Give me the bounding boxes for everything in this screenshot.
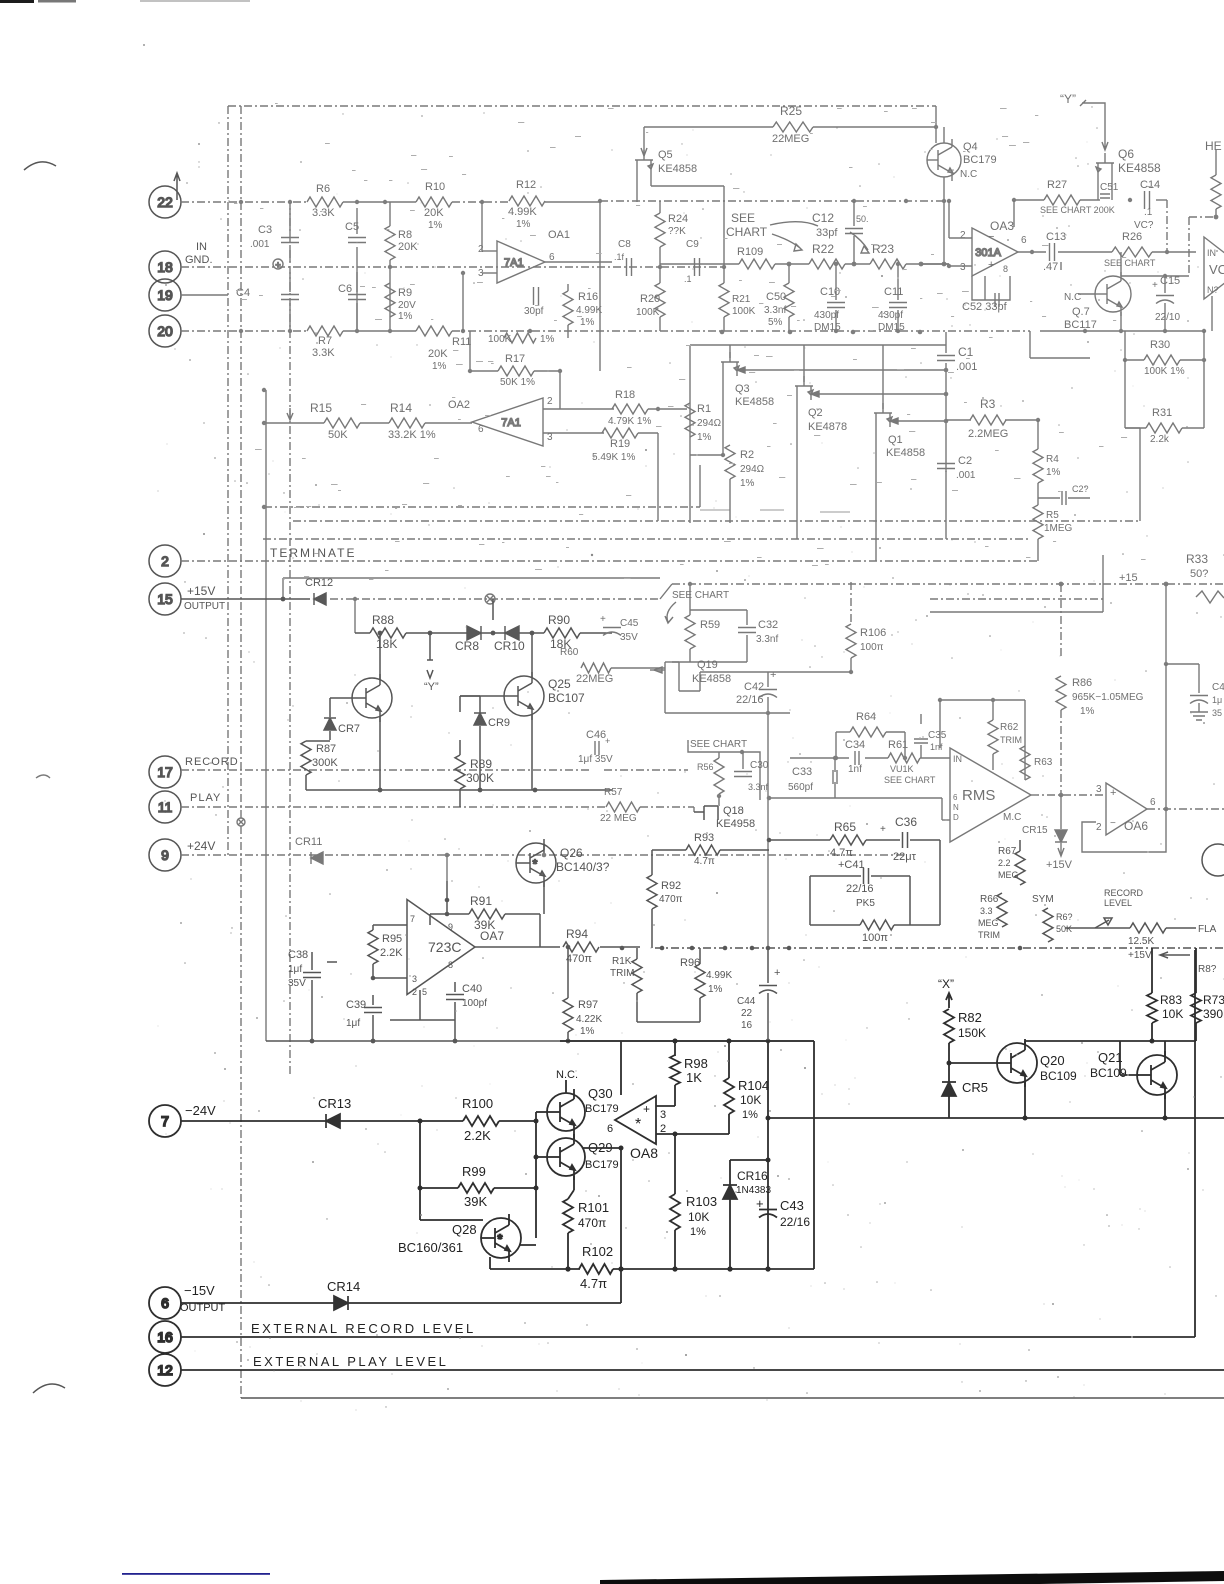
svg-text:BC179: BC179 [963, 154, 997, 166]
capacitor C35 [914, 739, 928, 743]
resistor R17 [498, 366, 534, 376]
svg-text:20K: 20K [428, 348, 448, 360]
wire q29 to oa8 bus [583, 1147, 621, 1149]
wire [329, 698, 331, 717]
connector pin 16 [149, 1321, 181, 1353]
junction y948 [1018, 946, 1023, 951]
svg-text:LEVEL: LEVEL [1104, 898, 1132, 908]
wire [700, 671, 851, 673]
wire record row [181, 769, 590, 771]
svg-text:RMS: RMS [962, 787, 995, 804]
wire rms out [1031, 794, 1106, 796]
svg-text:39K: 39K [474, 918, 495, 932]
transistor Q24 [352, 674, 392, 722]
wire [1121, 275, 1165, 277]
wire q7 emitter row [1040, 330, 1204, 332]
capacitor C40 [446, 995, 464, 1000]
wire [452, 201, 509, 203]
svg-text:2: 2 [412, 987, 417, 997]
junction [944, 392, 949, 397]
wire inner box bottom y539 [263, 538, 1030, 540]
wire [897, 310, 899, 331]
svg-text:1%: 1% [540, 334, 555, 345]
svg-text:N?: N? [1207, 285, 1219, 295]
wire [690, 454, 723, 456]
svg-text:CR9: CR9 [488, 717, 510, 729]
svg-text:4.7π: 4.7π [830, 847, 853, 859]
wire jog [660, 584, 672, 599]
svg-text:GND.: GND. [185, 254, 213, 266]
scan noise speckle [836, 127, 837, 128]
svg-text:1%: 1% [697, 432, 712, 443]
capacitor C51 [1100, 194, 1110, 198]
svg-text:1nf: 1nf [848, 764, 862, 775]
junction on row y331 [288, 329, 292, 333]
wire +15 rail right [672, 583, 1103, 585]
svg-text:SEE CHART: SEE CHART [672, 590, 729, 601]
wire [699, 672, 701, 691]
junction [834, 756, 838, 760]
svg-text:C32: C32 [758, 619, 778, 631]
svg-text:“Y”: “Y” [1060, 92, 1076, 106]
junction [1164, 582, 1169, 587]
junction y332 [918, 330, 923, 335]
diode CR15 [1055, 830, 1067, 842]
svg-text:1N4383: 1N4383 [736, 1185, 771, 1196]
svg-text:C52 33pf: C52 33pf [962, 301, 1008, 313]
wire [850, 658, 852, 672]
svg-text:4.99K: 4.99K [576, 305, 602, 316]
resistor R68 [1043, 908, 1053, 942]
wire box top y578 [283, 577, 660, 579]
svg-text:1%: 1% [690, 1226, 706, 1238]
svg-text:35V: 35V [620, 632, 638, 643]
svg-text:C51: C51 [1100, 182, 1119, 193]
wire [490, 1268, 580, 1270]
wire [1080, 199, 1100, 201]
wire [690, 609, 747, 611]
resistor R64 [850, 727, 886, 737]
svg-text:+15: +15 [1119, 572, 1138, 584]
svg-text:C1: C1 [958, 345, 974, 359]
svg-text:+15V: +15V [187, 584, 215, 598]
svg-text:7: 7 [410, 914, 415, 924]
wire [373, 977, 407, 979]
svg-text:.1f: .1f [614, 252, 625, 262]
wire +15v [181, 598, 310, 600]
wire y1041 dark part [560, 1040, 814, 1042]
wire [1038, 497, 1060, 499]
wire [906, 263, 949, 265]
svg-text:R27: R27 [1047, 179, 1067, 191]
svg-text:965K−1.05MEG: 965K−1.05MEG [1072, 692, 1144, 703]
wire [809, 876, 811, 925]
svg-text:HE: HE [1205, 139, 1222, 153]
svg-text:IN: IN [953, 754, 962, 764]
wire [689, 345, 691, 523]
wire [1165, 584, 1167, 664]
wire y1118 out [768, 1117, 1224, 1119]
junction [1128, 198, 1132, 202]
svg-text:R6?: R6? [1056, 912, 1073, 922]
wire [767, 697, 769, 948]
svg-text:IN: IN [196, 241, 207, 253]
svg-text:3: 3 [1096, 784, 1102, 795]
resistor R16 [563, 291, 573, 325]
wire [289, 208, 291, 234]
svg-text:7A1: 7A1 [501, 417, 521, 429]
op-amp VC [1204, 237, 1224, 299]
svg-text:22/10: 22/10 [1155, 312, 1180, 323]
junction [849, 670, 853, 674]
resistor R67 [1015, 851, 1025, 885]
resistor C50? [784, 283, 794, 317]
wire [939, 700, 941, 748]
wire [543, 432, 604, 434]
connector pin 2 [149, 545, 181, 577]
wire right bus [1203, 331, 1205, 428]
svg-text:R63: R63 [1034, 757, 1053, 768]
svg-text:R94: R94 [566, 927, 588, 941]
transistor Q4 [927, 139, 961, 181]
wire [446, 881, 448, 914]
svg-text:R4: R4 [1046, 454, 1059, 465]
wire left bus [419, 1121, 421, 1220]
wire [1060, 710, 1062, 795]
wire oa6 fb loop [1082, 809, 1166, 852]
svg-text:470π: 470π [659, 894, 683, 905]
capacitor C38 [303, 973, 321, 978]
wire right bus x1195 [1194, 950, 1196, 1337]
svg-text:2: 2 [161, 553, 169, 569]
svg-text:R87: R87 [316, 743, 336, 755]
wire [834, 782, 836, 798]
svg-text:R57: R57 [604, 787, 623, 798]
svg-text:R10: R10 [425, 181, 445, 193]
svg-text:R5: R5 [1046, 510, 1059, 521]
wire external record level [181, 1336, 1195, 1338]
junction [1202, 358, 1206, 362]
svg-text:6: 6 [607, 1123, 613, 1135]
wire [729, 345, 731, 358]
junction y948 [723, 946, 728, 951]
wire oa1 out [545, 261, 612, 263]
wire q6 source row [1014, 199, 1044, 201]
svg-text:R98: R98 [684, 1056, 708, 1071]
wire [810, 924, 860, 926]
svg-text:CR11: CR11 [295, 836, 322, 848]
svg-text:22 MEG: 22 MEG [600, 813, 637, 824]
svg-text:N.C: N.C [960, 169, 977, 180]
wire [718, 752, 720, 758]
svg-text:R62: R62 [1000, 722, 1019, 733]
wire mix row y264 [660, 263, 739, 265]
junction [534, 1155, 539, 1160]
junction [740, 750, 744, 754]
wire [723, 186, 725, 267]
svg-text:2.2K: 2.2K [464, 1128, 491, 1143]
svg-text:R19: R19 [610, 438, 630, 450]
junction [1165, 250, 1169, 254]
wire [568, 1190, 574, 1199]
resistor R4 [1033, 449, 1043, 483]
wire [910, 839, 940, 841]
svg-text:+15V: +15V [1128, 950, 1152, 961]
dot speck2 [591, 554, 593, 556]
svg-text:C8: C8 [618, 239, 631, 250]
svg-text:1μf 35V: 1μf 35V [578, 754, 613, 765]
resistor R93 [686, 845, 720, 855]
wire [580, 632, 612, 634]
wire inner box bottom y507 [264, 506, 700, 508]
transistor Q7 [1095, 272, 1131, 316]
junction y332 [788, 330, 793, 335]
wire [429, 914, 431, 925]
wire [543, 408, 614, 410]
resistor R90 [544, 628, 580, 638]
svg-text:OA3: OA3 [990, 219, 1014, 233]
resistor R25 [773, 122, 813, 132]
wire [920, 714, 922, 724]
svg-text:8: 8 [448, 960, 453, 970]
svg-text:4.99K: 4.99K [508, 206, 537, 218]
capacitor C8 [627, 258, 632, 276]
wire [728, 1041, 730, 1078]
svg-text:1%: 1% [428, 220, 443, 231]
wire [886, 731, 905, 733]
junction [833, 756, 837, 760]
resistor R3 [970, 415, 1006, 425]
svg-text:*: * [498, 1232, 503, 1246]
svg-text:+C41: +C41 [838, 859, 865, 871]
svg-text:C2: C2 [958, 455, 972, 467]
svg-text:C42: C42 [744, 681, 764, 693]
svg-text:C43: C43 [780, 1198, 804, 1213]
svg-text:R90: R90 [548, 613, 570, 627]
svg-text:1MEG: 1MEG [1044, 523, 1073, 534]
dark scan band bottom-right [600, 1571, 1224, 1584]
wire inner box bottom y521 [293, 520, 1140, 522]
junction [445, 898, 450, 903]
svg-text:301A: 301A [975, 247, 1001, 259]
wire q19 drain [664, 680, 666, 713]
arrow Y to Q6 [1080, 100, 1108, 150]
svg-text:*: * [635, 1116, 641, 1133]
svg-text:39K: 39K [464, 1194, 487, 1209]
junction [896, 262, 900, 266]
svg-text:BC117: BC117 [1064, 319, 1097, 331]
svg-text:C4: C4 [236, 287, 250, 299]
svg-text:5: 5 [422, 987, 427, 997]
svg-text:19: 19 [157, 287, 173, 303]
svg-text:R59: R59 [700, 619, 720, 631]
wire [1029, 331, 1031, 358]
svg-text:M.C: M.C [1003, 812, 1021, 823]
wire [835, 732, 837, 758]
wire [1037, 539, 1039, 561]
svg-text:1%: 1% [1046, 467, 1061, 478]
svg-text:723C: 723C [428, 939, 461, 955]
svg-text:6: 6 [1150, 797, 1156, 808]
resistor R27 [1044, 195, 1080, 205]
svg-text:R16: R16 [578, 291, 598, 303]
capacitor C34 [855, 751, 859, 765]
wire [845, 263, 870, 265]
svg-text:+: + [643, 1102, 650, 1116]
wire [543, 845, 545, 855]
diode CR13 [326, 1114, 340, 1128]
wire [699, 998, 701, 1022]
junction on row y202 [480, 200, 484, 204]
junction [445, 912, 450, 917]
svg-text:Q25: Q25 [548, 677, 571, 691]
wire [920, 745, 922, 758]
wire 723c pin5 loop [390, 990, 455, 1020]
svg-text:100pf: 100pf [462, 998, 487, 1009]
junction y948 [620, 946, 625, 951]
wire [289, 303, 291, 331]
svg-text:3.3: 3.3 [980, 906, 993, 916]
svg-text:1nf: 1nf [930, 742, 943, 752]
resistor R65 [830, 835, 866, 845]
wire pin20 row continues [452, 330, 1030, 332]
wire R25 row [644, 126, 773, 128]
resistor R100 [463, 1116, 499, 1126]
wire oa6 out [1147, 808, 1224, 810]
svg-text:“X”: “X” [938, 977, 954, 991]
wire [720, 849, 769, 851]
wire [942, 819, 950, 821]
svg-text:PK5: PK5 [856, 898, 875, 909]
junction [378, 788, 383, 793]
svg-text:1%: 1% [580, 1026, 595, 1037]
connector symbol on +15 rail [485, 594, 495, 604]
svg-text:3.3nf: 3.3nf [748, 782, 769, 792]
junction [461, 271, 465, 275]
diode CR9 [474, 713, 486, 725]
svg-text:R106: R106 [860, 627, 886, 639]
svg-text:1%: 1% [398, 311, 413, 322]
resistor head [1211, 175, 1221, 209]
connector pin 17 [149, 756, 181, 788]
svg-text:D: D [953, 813, 959, 822]
svg-text:5%: 5% [768, 317, 783, 328]
wire [460, 695, 480, 697]
capacitor C42 [759, 690, 777, 698]
junction [721, 453, 725, 457]
wire [1152, 1040, 1196, 1042]
svg-text:R30: R30 [1150, 339, 1170, 351]
wire [945, 332, 947, 353]
junction y1041 [453, 1039, 458, 1044]
wire [289, 272, 291, 292]
resistor R70 [1130, 923, 1166, 933]
svg-text:+24V: +24V [187, 839, 215, 853]
wire [651, 850, 653, 875]
capacitor C13 [1050, 243, 1055, 261]
svg-text:+: + [1152, 280, 1158, 291]
wire [945, 363, 947, 472]
wire [1111, 177, 1113, 200]
junction [942, 262, 947, 267]
junction on row y331 [461, 329, 465, 333]
svg-text:22MEG: 22MEG [772, 133, 809, 145]
leader arrow [665, 602, 676, 623]
wire [1215, 150, 1217, 175]
wire q28 collector [519, 1244, 536, 1246]
wire [643, 127, 645, 155]
junction [673, 1132, 678, 1137]
capacitor C44 [759, 986, 777, 994]
wire [674, 1041, 676, 1056]
svg-text:100K: 100K [488, 334, 512, 345]
svg-text:−: − [1110, 818, 1116, 829]
svg-text:.1: .1 [684, 274, 692, 284]
svg-text:OA6: OA6 [1124, 819, 1148, 833]
svg-text:100π: 100π [860, 642, 884, 653]
wire [1120, 312, 1122, 331]
svg-text:MEG: MEG [978, 918, 999, 928]
svg-text:20V: 20V [398, 300, 416, 311]
wire [636, 174, 638, 202]
svg-text:R66: R66 [980, 894, 999, 905]
wire r30 row [1125, 359, 1144, 361]
svg-text:Q6: Q6 [1118, 147, 1134, 161]
resistor R1 [685, 403, 695, 437]
wire [372, 1015, 374, 1041]
wire [1198, 703, 1200, 712]
svg-text:OUTPUT: OUTPUT [184, 601, 225, 612]
transistor Q3 KE4858 [721, 352, 739, 376]
wire [600, 946, 640, 948]
resistor R8 [385, 226, 395, 260]
resistor R24 [655, 213, 665, 247]
svg-text:KE4858: KE4858 [1118, 161, 1161, 175]
resistor R94 [563, 942, 599, 952]
junction [566, 945, 571, 950]
svg-text:N.C.: N.C. [556, 1069, 578, 1081]
svg-text:CR14: CR14 [327, 1279, 360, 1294]
svg-text:2: 2 [1096, 822, 1102, 833]
wire oa3 in- [949, 237, 972, 239]
svg-text:10K: 10K [688, 1210, 709, 1224]
junction on q7 row [1202, 329, 1206, 333]
svg-text:BC109: BC109 [1090, 1066, 1127, 1080]
svg-text:??K: ??K [668, 226, 686, 237]
resistor R83 [1147, 993, 1157, 1023]
wire [769, 839, 830, 841]
svg-text:22: 22 [741, 1008, 753, 1019]
svg-text:TRIM: TRIM [610, 968, 634, 979]
wire q3 gate [737, 369, 946, 371]
svg-text:15: 15 [157, 591, 173, 607]
capacitor C52 [995, 293, 999, 307]
wire [469, 331, 471, 371]
junction [378, 631, 383, 636]
wire [943, 127, 945, 143]
junction [1164, 662, 1168, 666]
svg-text:+: + [605, 736, 610, 746]
junction on row y202 [383, 200, 387, 204]
junction [445, 853, 450, 858]
junction [834, 329, 838, 333]
svg-text:.001: .001 [956, 470, 976, 481]
wire oa3 pin8 loop [972, 276, 1010, 300]
junction [717, 794, 721, 798]
wire [372, 995, 374, 1005]
resistor R63 [1020, 746, 1030, 780]
svg-text:C34: C34 [845, 739, 865, 751]
